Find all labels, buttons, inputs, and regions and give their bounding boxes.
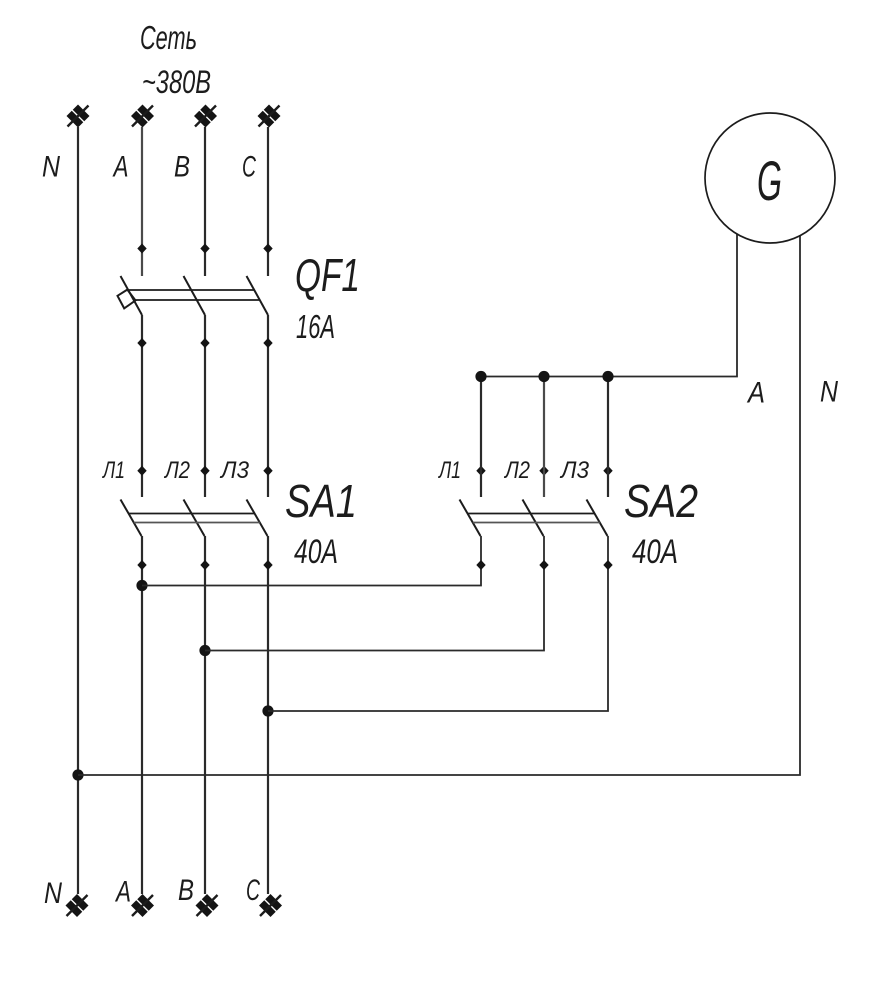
node diamond C above QF1	[263, 244, 272, 254]
QF1 linkage bar lower	[134, 299, 260, 301]
SA2 linkage bar upper	[468, 513, 595, 515]
wire C top	[267, 127, 269, 276]
svg-text:В: В	[178, 874, 194, 907]
wire B below SA1	[204, 536, 206, 894]
switch SA1 pole 1 blade	[121, 500, 142, 537]
terminal X1 bottom N	[66, 894, 89, 917]
junction dot N-G	[72, 769, 83, 780]
node diamond SA2 pole1 below	[476, 560, 485, 570]
node diamond A below QF1	[137, 338, 146, 348]
switch SA1 pole 3 blade	[247, 500, 268, 537]
wire SA2 pole2 top	[543, 377, 545, 498]
circuit breaker QF1 pole 3 blade	[247, 276, 269, 315]
wire B top	[204, 127, 206, 276]
switch SA2 pole 1 blade	[460, 500, 481, 537]
svg-text:В: В	[174, 151, 190, 184]
node diamond SA2 pole2 above	[539, 466, 548, 476]
node diamond C below SA1	[263, 560, 272, 570]
svg-text:А: А	[112, 151, 128, 184]
SA2 linkage bar lower	[473, 522, 600, 524]
svg-text:Сеть: Сеть	[140, 19, 197, 56]
svg-text:С: С	[246, 874, 260, 907]
svg-text:N: N	[44, 877, 62, 910]
terminal X2 bottom A	[131, 894, 154, 917]
switch SA2 pole 3 blade	[587, 500, 608, 537]
svg-text:QF1: QF1	[295, 249, 360, 301]
node diamond A above QF1	[137, 244, 146, 254]
svg-text:SA1: SA1	[285, 475, 357, 527]
junction dot B-SA2	[199, 645, 210, 656]
QF1 linkage bar upper	[128, 289, 254, 291]
svg-text:16А: 16А	[296, 308, 335, 345]
svg-text:40А: 40А	[294, 533, 338, 571]
wire A below QF1	[141, 315, 143, 497]
svg-text:С: С	[242, 151, 256, 184]
terminal X4 bottom C	[259, 894, 282, 917]
terminal X3 top B	[194, 105, 217, 128]
wire SA2 pole3 top	[607, 377, 609, 498]
svg-text:G: G	[757, 149, 782, 212]
svg-text:SA2: SA2	[624, 475, 698, 527]
junction dot C-SA2	[262, 705, 273, 716]
node diamond A above SA1	[137, 466, 146, 476]
SA1 linkage bar upper	[129, 513, 255, 515]
svg-text:40А: 40А	[632, 533, 678, 571]
node diamond SA2 pole1 above	[476, 466, 485, 476]
svg-text:А: А	[746, 377, 765, 410]
svg-text:Л3: Л3	[559, 457, 589, 484]
terminal X2 top A	[131, 105, 154, 128]
node diamond B below SA1	[200, 560, 209, 570]
svg-text:Л2: Л2	[503, 457, 530, 484]
switch SA1 pole 2 blade	[184, 500, 205, 537]
svg-text:А: А	[115, 876, 131, 909]
svg-text:Л2: Л2	[163, 457, 190, 484]
wire C to SA2 pole 3	[268, 536, 608, 711]
svg-text:Л1: Л1	[102, 457, 125, 484]
generator G circle	[705, 113, 835, 243]
node diamond B below QF1	[200, 338, 209, 348]
wire B below QF1	[204, 315, 206, 497]
switch SA2 pole 2 blade	[523, 500, 544, 537]
node diamond C above SA1	[263, 466, 272, 476]
junction dot bus pole1	[475, 371, 486, 382]
terminal X4 top C	[258, 105, 281, 128]
node diamond SA2 pole3 below	[603, 560, 612, 570]
wire C below QF1	[267, 315, 269, 497]
node diamond A below SA1	[137, 560, 146, 570]
svg-text:Л1: Л1	[438, 457, 461, 484]
junction dot bus pole3	[602, 371, 613, 382]
junction dot bus pole2	[538, 371, 549, 382]
svg-text:Л3: Л3	[219, 457, 249, 484]
node diamond C below QF1	[263, 338, 272, 348]
node diamond B above SA1	[200, 466, 209, 476]
node diamond SA2 pole2 below	[539, 560, 548, 570]
terminal X3 bottom B	[196, 894, 219, 917]
SA1 linkage bar lower	[134, 522, 260, 524]
wire B to SA2 pole 2	[205, 536, 544, 651]
QF1 actuator square	[118, 290, 136, 309]
svg-text:N: N	[820, 376, 838, 409]
svg-text:N: N	[42, 151, 60, 184]
circuit breaker QF1 pole 1 blade	[121, 276, 143, 315]
wire A below SA1	[141, 536, 143, 894]
svg-text:~380В: ~380В	[142, 64, 211, 100]
circuit breaker QF1 pole 2 blade	[184, 276, 206, 315]
wire SA2 pole1 top	[480, 377, 482, 498]
wire C below SA1	[267, 536, 269, 894]
wire generator phase bus	[481, 234, 737, 377]
wire A top	[141, 127, 143, 276]
junction dot A-SA2	[136, 580, 147, 591]
terminal X1 top N	[67, 105, 90, 128]
wire A to SA2 pole 1	[142, 536, 481, 586]
wire N to generator	[78, 235, 800, 775]
node diamond B above QF1	[200, 244, 209, 254]
wire N vertical	[77, 127, 79, 894]
node diamond SA2 pole3 above	[603, 466, 612, 476]
